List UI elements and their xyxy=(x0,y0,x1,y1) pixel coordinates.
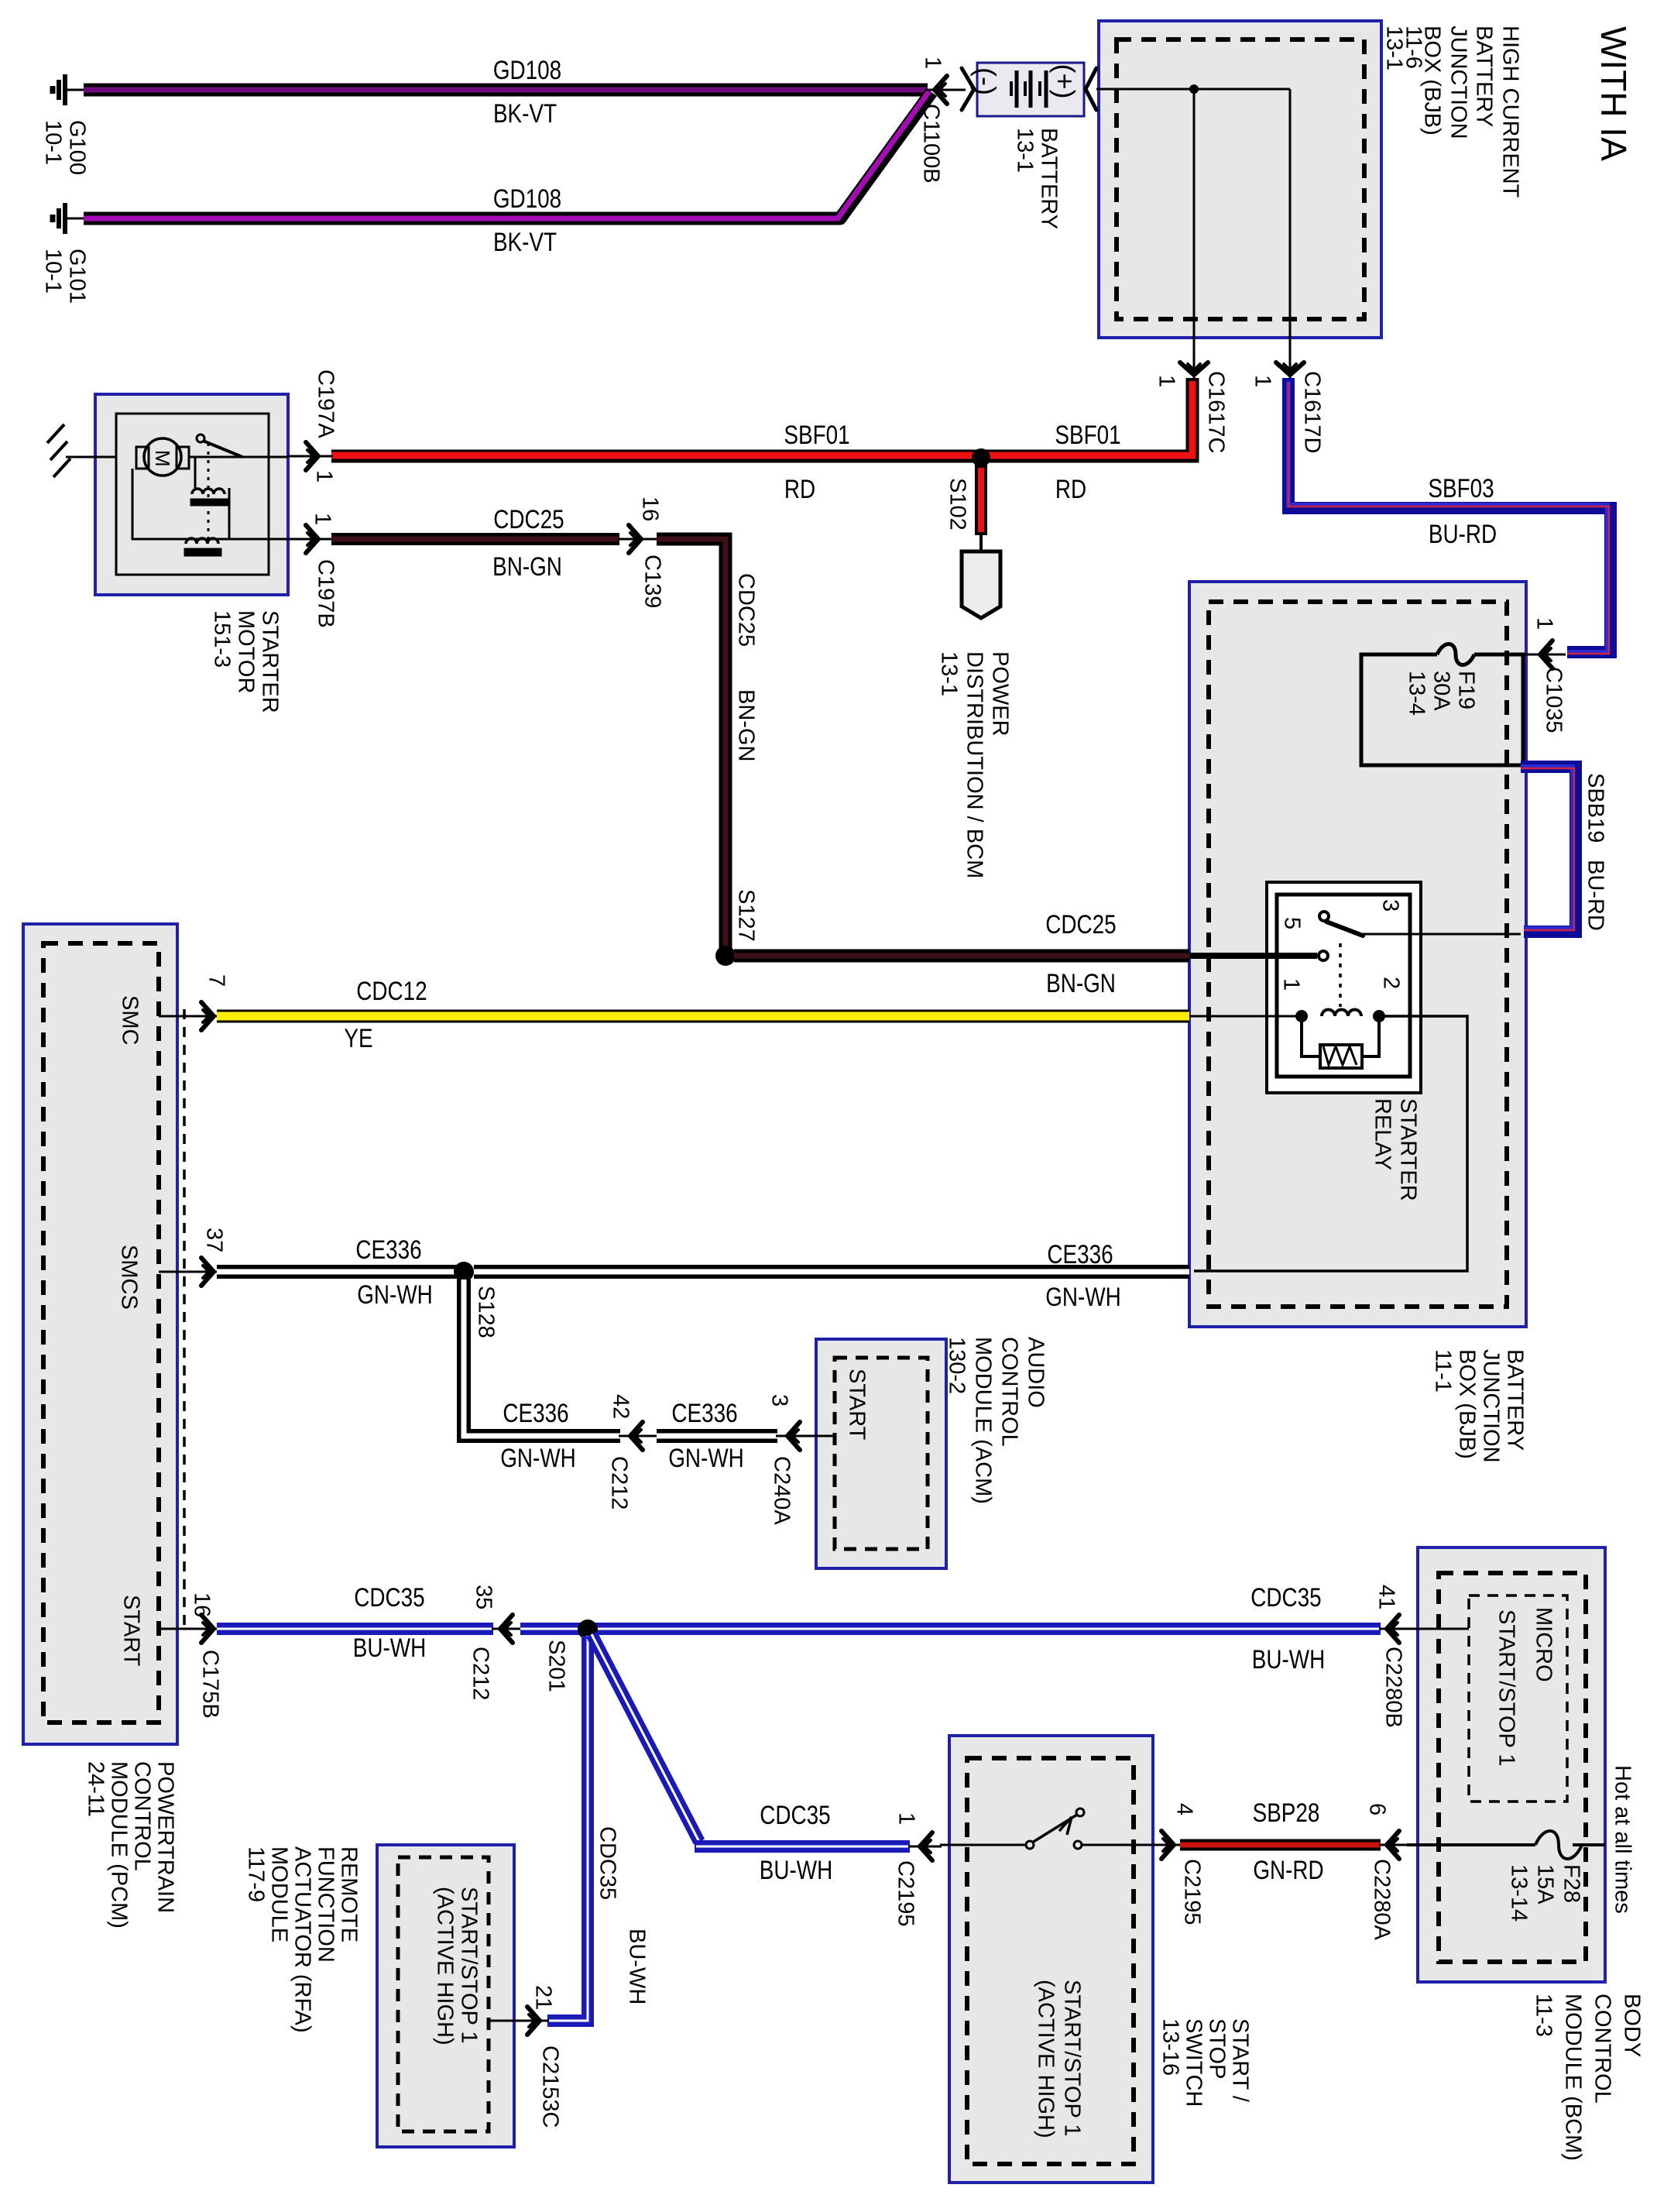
label SBF01 #1 xyxy=(784,420,849,449)
svg-text:117-9: 117-9 xyxy=(244,1846,269,1902)
wire CE336 (GN-WH) C212 to C240A xyxy=(657,1429,777,1443)
svg-text:CDC12: CDC12 xyxy=(356,976,427,1005)
relay pin 3 wire to SBB19 xyxy=(1363,933,1521,936)
svg-text:S128: S128 xyxy=(474,1286,499,1338)
BJB inner dashed boundary xyxy=(1209,602,1507,1307)
pin 1 label at C1617C xyxy=(1154,375,1179,387)
connector C2153C arrow xyxy=(490,2007,549,2035)
label MICRO xyxy=(1532,1607,1556,1682)
svg-text:41: 41 xyxy=(1374,1585,1399,1609)
svg-text:GD108: GD108 xyxy=(493,55,561,84)
label C2153C xyxy=(538,2045,563,2128)
relay pin 5 label xyxy=(1280,917,1305,929)
label BATTERY 13-1 xyxy=(1013,128,1062,229)
label CDC35 #1 xyxy=(354,1582,424,1612)
svg-text:BATTERY: BATTERY xyxy=(1503,1349,1528,1451)
relay resistor connections xyxy=(1302,1016,1379,1056)
svg-text:BU-RD: BU-RD xyxy=(1429,519,1497,548)
label CE336 #1 xyxy=(355,1235,421,1264)
svg-text:POWER: POWER xyxy=(988,651,1013,737)
svg-text:DISTRIBUTION / BCM: DISTRIBUTION / BCM xyxy=(962,651,987,878)
label BU-WH #2 xyxy=(1252,1644,1325,1674)
node S201 junction dot xyxy=(578,1619,598,1640)
svg-text:(-): (-) xyxy=(970,67,1002,95)
high current BJB inner dashed boundary xyxy=(1117,39,1364,319)
svg-text:C240A: C240A xyxy=(770,1456,794,1525)
svg-text:C212: C212 xyxy=(607,1456,632,1510)
label AUDIO CONTROL MODULE (ACM) 130-2 xyxy=(945,1337,1048,1504)
svg-text:CE336: CE336 xyxy=(503,1398,568,1427)
label C2195 (pin 1) xyxy=(894,1860,918,1926)
wire SBF03 (BU-RD) from C1617D to C1035 xyxy=(1288,378,1611,654)
svg-text:BU-WH: BU-WH xyxy=(760,1855,832,1884)
svg-text:GN-WH: GN-WH xyxy=(357,1279,433,1309)
svg-text:SBP28: SBP28 xyxy=(1253,1798,1320,1827)
wire GD108 #1 (BK-VT) from G100 to C1100B xyxy=(84,84,928,97)
label RD #2 xyxy=(1055,474,1086,503)
pin 7 label at SMC xyxy=(204,974,229,987)
BCM inner dashed boundary xyxy=(1439,1573,1586,1962)
svg-text:G100: G100 xyxy=(65,120,90,175)
connector C240A arrow xyxy=(776,1422,815,1450)
label C212 (CE336) xyxy=(607,1456,632,1510)
wire CDC12 (YE) PCM to starter relay coil xyxy=(217,1010,1189,1023)
pin 1 label at C2195 xyxy=(894,1812,919,1825)
svg-text:2: 2 xyxy=(1379,977,1404,989)
svg-text:1: 1 xyxy=(921,57,945,69)
label G101 10-1 xyxy=(41,249,90,304)
label BU-WH #4 xyxy=(760,1855,832,1884)
wire lead into start/stop switch xyxy=(940,1844,1027,1846)
wire micro lead to C2280B xyxy=(1440,1628,1469,1630)
svg-text:Hot at all times: Hot at all times xyxy=(1611,1765,1635,1914)
svg-text:SMCS: SMCS xyxy=(117,1245,142,1310)
pin 1 label at C1100B xyxy=(921,57,945,69)
pin 35 label at C212 xyxy=(472,1585,496,1609)
svg-text:S201: S201 xyxy=(544,1640,569,1692)
label HIGH CURRENT BATTERY JUNCTION BOX (BJB) 11-6 13-1 xyxy=(1382,26,1523,198)
svg-text:RELAY: RELAY xyxy=(1371,1098,1395,1170)
pin 4 label at C2195 xyxy=(1172,1803,1197,1815)
svg-text:SWITCH: SWITCH xyxy=(1182,2018,1206,2107)
wire BJB drop to C1617D xyxy=(1289,89,1292,350)
pin SMC label xyxy=(118,995,142,1045)
label BU-WH #3 vertical xyxy=(625,1929,650,2004)
pin START arrow xyxy=(201,1615,214,1643)
pin 3 label at C240A xyxy=(767,1394,792,1407)
connector C197B arrow xyxy=(288,525,333,553)
svg-text:6: 6 xyxy=(1365,1803,1390,1815)
svg-text:CDC35: CDC35 xyxy=(1250,1582,1321,1612)
wire SBB19 (BU-RD) loop from F19 to relay pin 3 xyxy=(1521,767,1576,932)
svg-text:C212: C212 xyxy=(468,1647,493,1700)
pin START lead line xyxy=(159,1628,218,1630)
svg-text:MODULE (PCM): MODULE (PCM) xyxy=(107,1761,132,1929)
title WITH IA xyxy=(1594,26,1634,161)
label CDC35 #2 xyxy=(1250,1582,1321,1612)
label SBF01 #2 xyxy=(1055,420,1120,449)
label CE336 #2 xyxy=(1047,1239,1113,1269)
pin 21 label at C2153C xyxy=(531,1985,556,2010)
powertrain control module (PCM) box outline xyxy=(23,924,177,1744)
svg-text:130-2: 130-2 xyxy=(945,1337,969,1394)
label C1035 xyxy=(1542,667,1566,733)
label BU-WH #1 xyxy=(353,1633,426,1662)
starter motor ground hatch xyxy=(46,424,116,477)
starter motor box outline xyxy=(95,394,288,595)
switch SW1 left contact xyxy=(1026,1841,1034,1849)
svg-text:11-3: 11-3 xyxy=(1532,1994,1556,2037)
relay coil pin 1 dot xyxy=(1295,1010,1308,1022)
starter solenoid dotted link xyxy=(208,443,210,542)
svg-text:1: 1 xyxy=(894,1812,919,1825)
svg-text:BOX (BJB): BOX (BJB) xyxy=(1455,1349,1480,1459)
svg-text:(ACTIVE HIGH): (ACTIVE HIGH) xyxy=(1034,1980,1058,2138)
svg-text:BU-WH: BU-WH xyxy=(353,1633,426,1662)
label STARTER RELAY xyxy=(1371,1098,1421,1201)
start/stop switch box outline xyxy=(949,1736,1153,2183)
label START/STOP 1 (ACTIVE HIGH) in switch xyxy=(1034,1980,1085,2138)
starter internal wiring xyxy=(132,457,288,539)
svg-text:C1035: C1035 xyxy=(1542,667,1566,733)
svg-text:STARTER: STARTER xyxy=(1396,1098,1421,1201)
svg-text:35: 35 xyxy=(472,1585,496,1609)
svg-text:C1617C: C1617C xyxy=(1204,371,1229,453)
label C2280B xyxy=(1381,1647,1406,1728)
svg-text:4: 4 xyxy=(1172,1803,1197,1815)
label C240A xyxy=(770,1456,794,1525)
svg-text:1: 1 xyxy=(1154,375,1179,387)
fuse F19 element xyxy=(1437,644,1474,665)
node S102 junction dot xyxy=(972,448,990,467)
svg-text:C197B: C197B xyxy=(314,559,338,628)
svg-text:MICRO: MICRO xyxy=(1532,1607,1556,1682)
label POWER DISTRIBUTION / BCM 13-1 xyxy=(937,651,1013,878)
pin 1 label at C197B xyxy=(310,513,335,525)
connector C1035 arrow xyxy=(1523,641,1566,668)
svg-text:11-1: 11-1 xyxy=(1431,1349,1456,1393)
connector C1617D arrow xyxy=(1276,349,1304,380)
svg-text:BODY: BODY xyxy=(1620,1994,1645,2057)
pin SMC lead line xyxy=(159,1015,218,1018)
svg-text:CE336: CE336 xyxy=(1047,1239,1113,1269)
svg-text:RD: RD xyxy=(1055,474,1086,503)
label C175B xyxy=(198,1650,223,1719)
label GD108 #1 xyxy=(493,55,561,84)
svg-text:GN-WH: GN-WH xyxy=(500,1443,576,1472)
battery minus terminal symbol xyxy=(970,67,1002,95)
svg-text:13-1: 13-1 xyxy=(1013,128,1038,173)
fuse F19 box xyxy=(1361,654,1523,765)
ACM inner dashed boundary xyxy=(835,1358,928,1549)
pin SMCS label xyxy=(117,1245,142,1310)
pin START label in PCM xyxy=(119,1595,144,1667)
svg-text:1: 1 xyxy=(310,513,335,525)
svg-text:HIGH CURRENT: HIGH CURRENT xyxy=(1498,26,1523,198)
svg-text:BU-WH: BU-WH xyxy=(1252,1644,1325,1674)
svg-text:STARTER: STARTER xyxy=(258,610,283,713)
label BK-VT #1 xyxy=(493,98,557,128)
svg-text:START /: START / xyxy=(1228,2018,1253,2103)
starter relay inner rect xyxy=(1277,895,1410,1077)
fuse F28 element xyxy=(1535,1831,1605,1859)
node S128 junction dot xyxy=(454,1262,474,1282)
relay pin 5 stub xyxy=(1189,953,1317,959)
battery left bracket xyxy=(962,68,974,110)
svg-text:SBF01: SBF01 xyxy=(784,420,849,449)
label CE336 #4 xyxy=(671,1398,737,1427)
svg-text:M: M xyxy=(151,450,174,467)
remote function actuator (RFA) module box outline xyxy=(377,1845,514,2147)
svg-text:13-1: 13-1 xyxy=(937,651,962,696)
svg-text:10-1: 10-1 xyxy=(41,120,66,165)
connector C1617C arrow xyxy=(1180,349,1208,380)
svg-text:151-3: 151-3 xyxy=(210,610,235,668)
svg-text:WITH IA: WITH IA xyxy=(1594,26,1634,161)
label CDC35 #3 vertical xyxy=(595,1826,620,1900)
switch SW1 blade with arrow xyxy=(1032,1815,1077,1843)
svg-text:13-1: 13-1 xyxy=(1382,26,1407,70)
label BN-GN #3 xyxy=(1046,968,1116,998)
pin SMC arrow xyxy=(201,1002,214,1030)
label C2280A xyxy=(1370,1859,1395,1940)
power distribution / BCM pointer symbol xyxy=(962,551,1000,618)
relay switch pivot xyxy=(1319,912,1329,921)
pin 1 label at C1035 xyxy=(1532,617,1557,630)
relay pin 1 label xyxy=(1279,978,1304,991)
svg-text:BN-GN: BN-GN xyxy=(492,551,562,581)
connector C2195 arrow (pin 4) xyxy=(1157,1831,1182,1859)
label START / STOP SWITCH 13-16 xyxy=(1158,2018,1253,2107)
starter solenoid switch xyxy=(189,434,288,457)
wire CDC25 (BN-GN) S127 to BJB relay pin 5 xyxy=(734,950,1189,963)
svg-text:START/STOP 1: START/STOP 1 xyxy=(1494,1609,1519,1767)
label CDC12 xyxy=(356,976,427,1005)
svg-text:START: START xyxy=(119,1595,144,1667)
svg-text:3: 3 xyxy=(1378,899,1403,912)
ground G100 xyxy=(53,74,84,105)
pin 37 label at SMCS xyxy=(202,1228,227,1252)
label CE336 #3 xyxy=(503,1398,568,1427)
pin 1 label at C197A xyxy=(312,470,337,483)
pin START/STOP 1 label in RFA xyxy=(433,1887,482,2045)
label BU-RD #2 xyxy=(1583,860,1608,931)
svg-text:BK-VT: BK-VT xyxy=(493,227,557,256)
svg-text:C1100B: C1100B xyxy=(919,104,944,184)
svg-text:BATTERY: BATTERY xyxy=(1037,128,1062,229)
svg-text:C175B: C175B xyxy=(198,1650,223,1719)
svg-text:C2280B: C2280B xyxy=(1381,1647,1406,1728)
high current battery junction box (BJB) outline xyxy=(1099,21,1381,338)
wire GD108 #2 (BK-VT) from G101, diagonal up to C1100B xyxy=(84,91,931,218)
wire lead to F28 xyxy=(1407,1843,1535,1846)
svg-text:S102: S102 xyxy=(945,478,970,531)
label BU-RD #1 xyxy=(1429,519,1497,548)
label STARTER MOTOR 151-3 xyxy=(210,610,283,713)
wire CDC25 (BN-GN) C139 to S127 xyxy=(657,539,726,950)
relay coil pin 2 dot xyxy=(1373,1010,1385,1022)
label GN-WH #2 xyxy=(1045,1282,1121,1311)
svg-text:CDC25: CDC25 xyxy=(1045,909,1116,939)
label CDC35 #4 xyxy=(760,1800,830,1829)
svg-text:13-16: 13-16 xyxy=(1158,2018,1183,2076)
relay actuation dotted line xyxy=(1339,943,1342,1007)
svg-text:GN-WH: GN-WH xyxy=(1045,1282,1121,1311)
node S127 junction dot xyxy=(715,946,736,966)
connector C212 arrow (CE336) xyxy=(619,1422,658,1450)
svg-text:1: 1 xyxy=(1532,617,1557,630)
motor M1 circle xyxy=(144,438,181,476)
svg-text:SBF03: SBF03 xyxy=(1428,473,1494,503)
connector C2195 arrow (pin 1) xyxy=(908,1832,942,1860)
svg-text:C2280A: C2280A xyxy=(1370,1859,1395,1940)
starter solenoid coil upper xyxy=(190,457,228,506)
pin 16 label at C139 xyxy=(638,496,663,521)
svg-text:CDC35: CDC35 xyxy=(595,1826,620,1900)
svg-text:CDC25: CDC25 xyxy=(493,504,564,534)
label BODY CONTROL MODULE (BCM) 11-3 xyxy=(1532,1994,1645,2161)
svg-text:MODULE (BCM): MODULE (BCM) xyxy=(1561,1994,1586,2161)
svg-text:GN-WH: GN-WH xyxy=(668,1443,744,1472)
svg-text:BU-WH: BU-WH xyxy=(625,1929,650,2004)
svg-text:BN-GN: BN-GN xyxy=(1046,968,1116,998)
label GN-RD xyxy=(1253,1855,1323,1884)
pin 41 label at C2280B xyxy=(1374,1585,1399,1609)
wire F19 to C1035 lead xyxy=(1474,654,1519,656)
battery right bracket xyxy=(1086,68,1096,110)
svg-text:3: 3 xyxy=(767,1394,792,1407)
relay pin 2 label xyxy=(1379,977,1404,989)
label SBP28 xyxy=(1253,1798,1320,1827)
svg-text:5: 5 xyxy=(1280,917,1305,929)
label BATTERY JUNCTION BOX (BJB) 11-1 xyxy=(1431,1349,1528,1463)
svg-text:30A: 30A xyxy=(1429,671,1454,711)
RFA inner dashed boundary xyxy=(398,1857,489,2131)
label GN-WH #4 xyxy=(668,1443,744,1472)
label SBF03 xyxy=(1428,473,1494,503)
wire SBF03 end stub at C1035 xyxy=(1565,652,1566,655)
svg-text:21: 21 xyxy=(531,1985,556,2010)
connector C1100B arrow xyxy=(926,76,966,104)
svg-text:GN-RD: GN-RD xyxy=(1253,1855,1323,1884)
svg-text:F28: F28 xyxy=(1559,1864,1584,1903)
svg-text:MODULE (ACM): MODULE (ACM) xyxy=(971,1337,996,1504)
wire S102 stub (RD) xyxy=(975,465,987,535)
svg-text:13-4: 13-4 xyxy=(1405,671,1429,716)
audio control module (ACM) box outline xyxy=(816,1339,946,1568)
svg-text:GD108: GD108 xyxy=(493,184,561,213)
pin 42 label at C212 xyxy=(609,1394,633,1419)
svg-text:RD: RD xyxy=(784,474,815,503)
battery junction box (BJB) outline xyxy=(1189,582,1526,1327)
wire CDC35 (BU-WH) PCM to C212 xyxy=(217,1623,493,1635)
wire S102 to power distribution xyxy=(979,535,983,553)
label CDC25 #2 vertical xyxy=(734,573,759,647)
svg-text:(ACTIVE HIGH): (ACTIVE HIGH) xyxy=(433,1887,458,2045)
label BK-VT #2 xyxy=(493,227,557,256)
relay pin 2 wire to CE336 xyxy=(1194,1016,1467,1271)
label GD108 #2 xyxy=(493,184,561,213)
BCM micro dashed box xyxy=(1469,1595,1567,1802)
PCM inner dashed boundary xyxy=(43,943,159,1723)
svg-text:C1617D: C1617D xyxy=(1300,371,1325,453)
svg-text:16: 16 xyxy=(190,1592,214,1617)
svg-text:JUNCTION: JUNCTION xyxy=(1479,1349,1504,1463)
connector C197A arrow xyxy=(288,442,333,470)
starter motor inner rect xyxy=(116,414,269,575)
svg-text:FUNCTION: FUNCTION xyxy=(314,1846,338,1963)
relay pin 3 label xyxy=(1378,899,1403,912)
pin 6 label at C2280A xyxy=(1365,1803,1390,1815)
label C212 (CDC35) xyxy=(468,1647,493,1700)
label C1617C xyxy=(1204,371,1229,453)
wire SBF01 (RD) C1617C down and left to S102 xyxy=(331,378,1192,456)
svg-text:START: START xyxy=(845,1369,870,1441)
label GN-WH #3 xyxy=(500,1443,576,1472)
label BN-GN #2 vertical xyxy=(734,689,759,761)
wire switch to pin 4 xyxy=(1082,1844,1158,1846)
svg-text:CE336: CE336 xyxy=(355,1235,421,1264)
switch SW1 right contact xyxy=(1074,1841,1082,1849)
relay coil xyxy=(1322,1010,1361,1017)
label YE xyxy=(344,1023,372,1053)
label F19 30A 13-4 xyxy=(1405,671,1479,716)
connector C2280A arrow xyxy=(1379,1831,1409,1859)
battery cells xyxy=(1011,70,1046,108)
svg-text:CONTROL: CONTROL xyxy=(997,1337,1022,1447)
svg-text:START/STOP 1: START/STOP 1 xyxy=(457,1887,482,2044)
svg-text:1: 1 xyxy=(1279,978,1304,991)
svg-text:S127: S127 xyxy=(734,889,759,942)
svg-text:G101: G101 xyxy=(65,249,90,304)
pin SMCS arrow xyxy=(201,1258,214,1286)
svg-text:37: 37 xyxy=(202,1228,227,1252)
svg-text:CDC25: CDC25 xyxy=(734,573,759,647)
svg-text:16: 16 xyxy=(638,496,663,521)
pin 16 label at START xyxy=(190,1592,214,1617)
label REMOTE FUNCTION ACTUATOR (RFA) MODULE 117-9 xyxy=(244,1846,362,2033)
battery plus terminal symbol xyxy=(1049,64,1081,99)
motor brushes xyxy=(136,447,189,469)
svg-text:AUDIO: AUDIO xyxy=(1024,1337,1048,1408)
wire BJB drop to C1617C xyxy=(1193,89,1196,350)
label C139 xyxy=(640,555,665,608)
wire CE336 S128 branch down xyxy=(464,1279,620,1436)
connector C212 arrow (CDC35) xyxy=(492,1615,522,1643)
svg-text:42: 42 xyxy=(609,1394,633,1419)
label F28 15A 13-14 xyxy=(1507,1864,1584,1922)
body control module (BCM) box outline xyxy=(1418,1547,1605,1982)
starter relay outer rect xyxy=(1267,882,1421,1093)
svg-text:CDC35: CDC35 xyxy=(354,1582,424,1612)
svg-text:C2195: C2195 xyxy=(1180,1859,1205,1925)
label G100 10-1 xyxy=(41,120,90,175)
svg-text:CDC35: CDC35 xyxy=(760,1800,830,1829)
svg-text:C2195: C2195 xyxy=(894,1860,918,1926)
pin START label in ACM xyxy=(845,1369,870,1441)
label S128 xyxy=(474,1286,499,1338)
svg-text:1: 1 xyxy=(1250,375,1275,387)
svg-text:13-14: 13-14 xyxy=(1507,1864,1532,1922)
label GN-WH #1 xyxy=(357,1279,433,1309)
pin SMCS lead line xyxy=(159,1271,218,1273)
svg-text:CE336: CE336 xyxy=(671,1398,737,1427)
relay resistor R1 xyxy=(1320,1045,1362,1068)
svg-text:CONTROL: CONTROL xyxy=(130,1761,155,1871)
pin 1 label at C1617D xyxy=(1250,375,1275,387)
battery B1 box xyxy=(977,63,1084,116)
svg-text:C197A: C197A xyxy=(314,369,338,438)
